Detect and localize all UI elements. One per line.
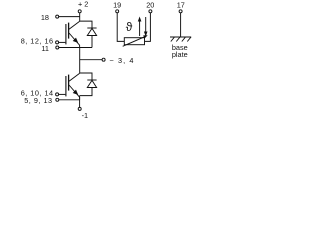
terminal 18 circle [56, 15, 59, 18]
terminal 11 circle [56, 46, 59, 49]
svg-text:11: 11 [41, 44, 49, 53]
thermistor R1 variable arrowhead [143, 35, 148, 38]
svg-text:18: 18 [41, 13, 49, 22]
svg-text:+ 2: + 2 [78, 0, 88, 9]
terminal 17 circle [179, 10, 182, 13]
chassis hatch 4 [187, 37, 191, 42]
svg-text:ϑ: ϑ [126, 20, 133, 34]
terminal 5,9,13 circle [56, 98, 59, 101]
IGBT Q2 emitter lead to rail [79, 97, 81, 100]
wire 17 to chassis [180, 13, 182, 37]
IGBT Q2 emitter arrowhead [73, 90, 79, 95]
diode D1 anode lead [91, 36, 93, 48]
thermistor R1 variable arrow [123, 36, 146, 46]
IGBT Q2 collector diagonal [69, 73, 80, 81]
AC terminal circle [102, 58, 105, 61]
svg-text:20: 20 [146, 0, 154, 9]
diode D2 cathode bar [87, 79, 96, 81]
phase node vertical [79, 48, 81, 74]
down arrowhead [144, 32, 148, 37]
chassis ground bar [170, 36, 191, 38]
wire collector node to diode D2 cathode [80, 73, 92, 80]
emitter rail top switch [59, 47, 92, 49]
wire terminal 2 down to collector node [79, 13, 81, 21]
terminal 1 circle [78, 107, 81, 110]
svg-text:17: 17 [177, 0, 185, 9]
terminal 20 circle [149, 10, 152, 13]
wire 20 to thermistor [145, 13, 151, 42]
IGBT Q1 channel bar [68, 23, 70, 39]
svg-text:5, 9, 13: 5, 9, 13 [24, 96, 52, 105]
terminal 8,12,16 circle [56, 41, 59, 44]
IGBT Q1 emitter arrowhead [73, 38, 79, 43]
thermistor R1 body [124, 38, 144, 45]
terminal 19 circle [116, 10, 119, 13]
svg-text:19: 19 [113, 0, 121, 9]
svg-text:~ 3, 4: ~ 3, 4 [110, 56, 135, 65]
chassis hatch 3 [182, 37, 186, 42]
diode D2 anode lead with jog to minus terminal [80, 88, 92, 96]
terminal 6,10,14 circle [56, 93, 59, 96]
wire 18 to collector node [59, 16, 80, 18]
emitter rail bottom switch [59, 99, 80, 101]
chassis hatch 1 [171, 37, 175, 42]
IGBT Q1 emitter diagonal [69, 33, 80, 45]
gate wire Q2 [59, 93, 66, 95]
IGBT Q1 emitter lead to rail [79, 45, 81, 48]
IGBT Q2 gate bar [65, 76, 67, 96]
IGBT Q1 collector diagonal [69, 21, 80, 29]
wire 19 to thermistor [117, 13, 124, 42]
chassis hatch 2 [176, 37, 180, 42]
svg-text:-1: -1 [82, 111, 89, 120]
up arrow shaft [139, 20, 141, 36]
svg-text:plate: plate [172, 50, 188, 59]
diode D1 triangle [87, 28, 96, 35]
phase rail to AC terminal [80, 59, 103, 61]
IGBT Q1 gate bar [65, 24, 67, 44]
down arrow shaft [145, 17, 147, 33]
gate wire Q1 [59, 41, 66, 43]
diode D2 triangle [87, 80, 96, 87]
IGBT Q2 channel bar [68, 75, 70, 91]
up arrowhead [138, 17, 142, 22]
wire collector node to diode D1 cathode [80, 21, 92, 28]
diode D1 cathode bar [87, 27, 96, 29]
IGBT Q2 emitter diagonal [69, 85, 80, 97]
wire minus terminal vertical [79, 96, 81, 108]
terminal 2 circle [78, 10, 81, 13]
